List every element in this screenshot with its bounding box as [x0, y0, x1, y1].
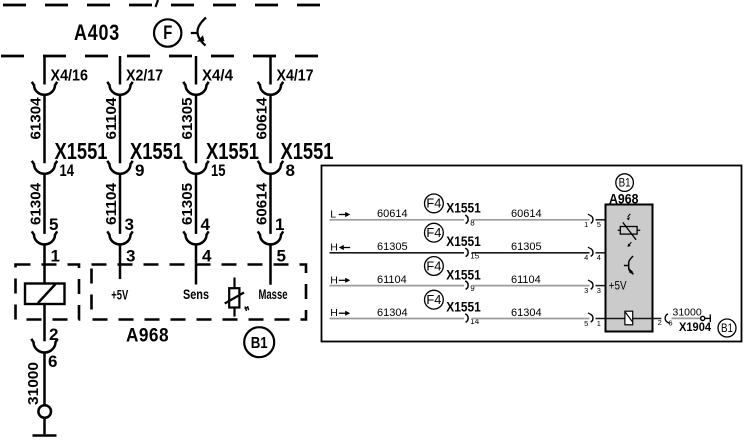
svg-text:B1: B1: [619, 178, 631, 190]
wire to Sens: [195, 245, 198, 285]
F contact symbol: [191, 18, 206, 46]
wire stub at top of A403 box: [156, 0, 159, 7]
wire to ground X1904: [652, 318, 662, 320]
wire 60614 upper segment from A403: [269, 56, 272, 85]
svg-text:X1551: X1551: [446, 201, 481, 216]
detail panel frame: [322, 166, 742, 342]
svg-text:5: 5: [49, 215, 58, 234]
svg-text:31000: 31000: [25, 362, 42, 405]
wire 61304 lower segment: [43, 174, 46, 234]
svg-text:60614: 60614: [254, 97, 271, 140]
connector X1551 socket pin 8: [465, 215, 468, 223]
svg-text:3: 3: [584, 286, 588, 295]
wire 61104 left segment: [330, 285, 465, 287]
svg-text:60614: 60614: [511, 208, 542, 220]
svg-text:61304: 61304: [377, 307, 408, 319]
wire 61305 upper segment from A403: [195, 56, 198, 85]
heater element symbol: [625, 311, 633, 325]
wire 61305 segment: [195, 95, 198, 164]
svg-text:H: H: [330, 307, 338, 319]
svg-text:61305: 61305: [179, 183, 196, 225]
connector socket X1551 pin 14: [32, 161, 57, 174]
svg-text:61104: 61104: [511, 274, 541, 286]
variable resistor symbol: [618, 214, 641, 247]
direction arrow row 3: [339, 278, 350, 283]
svg-text:1: 1: [275, 215, 284, 234]
svg-text:5: 5: [584, 319, 588, 328]
wire to Masse: [269, 245, 272, 285]
connector X1551 socket pin 15: [465, 248, 468, 256]
connector X1551 socket pin 9: [465, 281, 468, 289]
ground symbol: [33, 434, 57, 437]
wire stub into A968 row 2: [596, 252, 606, 254]
svg-text:H: H: [330, 274, 338, 286]
connector socket X1551 pin 15: [183, 161, 208, 174]
ground terminal node: [38, 405, 51, 418]
connector socket at A968 pin 4/4: [588, 247, 593, 256]
connector socket X4/16: [32, 82, 57, 95]
wire below relay: [43, 304, 46, 341]
wire 60614 left segment: [330, 219, 465, 221]
svg-text:4: 4: [597, 253, 601, 262]
wire 61104 lower segment: [119, 174, 122, 234]
svg-text:X1551: X1551: [281, 138, 334, 164]
wire 60614 lower segment: [269, 174, 272, 234]
svg-text:61104: 61104: [103, 97, 120, 140]
connector socket pin 1/5: [258, 231, 283, 244]
svg-text:2: 2: [658, 318, 662, 327]
svg-text:1: 1: [597, 319, 601, 328]
svg-text:B1: B1: [721, 323, 733, 335]
thermistor sensor symbol: [225, 278, 249, 317]
svg-text:60614: 60614: [254, 182, 271, 225]
connector F4 circle row 3: [425, 257, 444, 276]
svg-text:Sens: Sens: [183, 286, 209, 302]
connector socket pin 5/1: [32, 231, 57, 244]
svg-text:61304: 61304: [28, 182, 45, 225]
wire 61104 right segment: [472, 285, 590, 287]
svg-text:X4/4: X4/4: [202, 68, 233, 85]
svg-text:6: 6: [48, 352, 57, 371]
svg-text:8: 8: [286, 161, 295, 180]
fuse F circle: [154, 19, 181, 46]
svg-text:9: 9: [135, 161, 144, 180]
svg-text:61104: 61104: [377, 274, 407, 286]
connector socket at A968 pin 1/5: [588, 214, 593, 223]
svg-text:61305: 61305: [511, 241, 542, 253]
A403 box top edge (dashed): [3, 4, 320, 7]
control unit B1 circle (bottom right): [718, 319, 736, 337]
svg-text:X1551: X1551: [446, 300, 481, 315]
svg-text:A403: A403: [74, 20, 120, 45]
svg-text:F4: F4: [426, 197, 441, 211]
connector F4 circle row 4: [425, 290, 444, 309]
wire 61305 right segment: [472, 252, 590, 254]
direction arrow row 4: [339, 311, 350, 316]
ground node circle: [701, 316, 705, 320]
connector socket X1904 pin 2/6: [665, 314, 670, 324]
svg-text:4: 4: [201, 215, 211, 234]
svg-text:6: 6: [668, 319, 672, 328]
svg-text:61305: 61305: [179, 98, 196, 140]
wire 61304 right segment: [472, 318, 590, 320]
svg-text:1: 1: [584, 220, 588, 229]
svg-text:A968: A968: [126, 326, 169, 347]
connector F4 circle row 1: [425, 194, 444, 213]
svg-text:X1551: X1551: [206, 138, 259, 164]
connector socket pin 3/3: [107, 231, 132, 244]
connector socket X4/4: [183, 82, 208, 95]
wire 61104 upper segment from A403: [119, 56, 122, 85]
A968 component box: [606, 205, 653, 332]
svg-text:15: 15: [211, 161, 226, 180]
ground wire 31000: [43, 353, 46, 405]
connector socket at A968 pin 3/3: [588, 280, 593, 289]
svg-text:+5V: +5V: [609, 281, 627, 293]
svg-text:X1551: X1551: [55, 138, 108, 164]
svg-text:61304: 61304: [511, 307, 542, 319]
direction arrow row 2: [339, 245, 350, 250]
svg-text:X1551: X1551: [446, 234, 481, 249]
wire to ground: [43, 418, 46, 435]
control unit B1 circle (top): [616, 174, 634, 192]
svg-text:F4: F4: [426, 259, 441, 273]
wire into relay box: [43, 245, 46, 284]
svg-text:H: H: [330, 242, 338, 254]
wire to +5V: [119, 245, 122, 279]
svg-text:F4: F4: [426, 293, 441, 307]
ground wire 31000 (panel): [672, 317, 701, 319]
svg-text:61104: 61104: [103, 182, 120, 225]
svg-text:X1551: X1551: [446, 267, 481, 282]
wire through A968 box: [606, 318, 652, 320]
connector X1551 socket pin 14: [465, 314, 468, 322]
ground terminal tick: [705, 314, 711, 322]
svg-text:5: 5: [597, 220, 601, 229]
direction arrow row 1: [339, 212, 350, 217]
connector socket X1551 pin 9: [107, 161, 132, 174]
svg-text:4: 4: [202, 247, 212, 266]
relay K dashed box: [16, 265, 80, 320]
svg-text:60614: 60614: [377, 208, 408, 220]
connector socket pin 4/4: [183, 231, 208, 244]
svg-text:14: 14: [60, 161, 75, 180]
wire 61305 lower segment: [195, 174, 198, 234]
wire 60614 right segment: [472, 219, 590, 221]
connector F4 circle row 2: [425, 223, 444, 242]
svg-text:61304: 61304: [28, 97, 45, 140]
svg-text:5: 5: [277, 247, 286, 266]
sensor B1 circle: [244, 327, 274, 357]
svg-text:61305: 61305: [377, 241, 408, 253]
svg-text:Masse: Masse: [259, 286, 288, 302]
wire 61304 left segment: [330, 318, 465, 320]
svg-text:4: 4: [584, 253, 588, 262]
connector socket X2/17: [107, 82, 132, 95]
A403 box bottom edge (dashed): [1, 55, 318, 58]
svg-text:B1: B1: [251, 335, 268, 352]
wire 61304 upper segment from A403: [43, 56, 46, 85]
svg-text:3: 3: [126, 247, 135, 266]
wire 60614 segment: [269, 95, 272, 164]
svg-text:3: 3: [597, 286, 601, 295]
svg-text:+5V: +5V: [111, 287, 128, 303]
wire stub into A968 row 1: [596, 219, 606, 221]
transistor-like symbol: [624, 256, 634, 274]
wire 61104 segment: [119, 95, 122, 164]
connector socket pin 2/6: [31, 339, 57, 353]
svg-text:31000: 31000: [673, 306, 702, 318]
wire stub into A968 row 3: [596, 285, 606, 287]
relay coil symbol: [25, 284, 65, 305]
svg-text:3: 3: [125, 215, 134, 234]
svg-text:X1904: X1904: [679, 320, 711, 334]
connector socket X4/17: [258, 82, 283, 95]
svg-text:F: F: [163, 23, 172, 44]
wire 61305 left segment: [330, 252, 465, 254]
svg-text:F4: F4: [426, 226, 441, 240]
wire 61304 segment: [43, 95, 46, 164]
wire stub into A968 row 4: [596, 318, 606, 320]
A968 dashed box: [92, 265, 307, 320]
svg-text:1: 1: [51, 247, 60, 266]
svg-text:L: L: [330, 209, 336, 221]
connector socket X1551 pin 8: [258, 161, 283, 174]
connector socket at A968 pin 5/1: [588, 313, 593, 322]
svg-text:X1551: X1551: [130, 138, 183, 164]
